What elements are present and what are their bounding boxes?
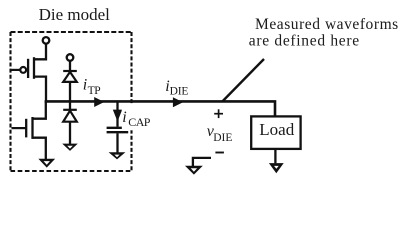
transistor Q2 NMOS: gate lead wire <box>12 127 27 129</box>
svg-text:Load: Load <box>259 120 294 139</box>
i_TP current arrowhead on node line <box>94 97 104 107</box>
svg-text:Die model: Die model <box>39 5 111 24</box>
diode D1: cathode bar <box>63 70 77 72</box>
transistor Q1 PMOS: gate bar <box>27 59 29 78</box>
ground under load <box>269 163 284 173</box>
node line (main wire) <box>45 101 275 117</box>
resistor/load box <box>251 116 300 148</box>
transistor Q2 NMOS: channel bar <box>31 117 33 139</box>
transistor Q1 PMOS: body <box>34 44 46 60</box>
capacitor C: wire to ground <box>116 133 118 153</box>
svg-text:TP: TP <box>88 85 101 97</box>
transistor Q1 PMOS: terminal circle <box>43 37 50 44</box>
transistor Q2 NMOS: gate bar <box>25 119 27 138</box>
diode D2: cathode bar <box>63 109 77 111</box>
diode D2 (lower ESD diode): wire from node <box>69 101 71 109</box>
transistor Q2 NMOS: source wire <box>33 138 46 160</box>
diode D2: wire to ground <box>69 122 71 145</box>
svg-text:i: i <box>122 109 126 126</box>
ground under capacitor <box>109 152 126 159</box>
v_DIE reference ground wire <box>193 158 211 166</box>
capacitor C (die cap): wire from node <box>116 101 118 111</box>
capacitor C: bottom plate <box>107 131 129 133</box>
i_DIE current arrowhead on node line <box>173 97 183 107</box>
svg-text:DIE: DIE <box>213 132 232 144</box>
svg-text:are defined here: are defined here <box>249 33 360 50</box>
die model dashed box <box>11 32 132 171</box>
minus sign (v_DIE polarity) <box>215 152 224 154</box>
transistor Q2 NMOS: drain wire <box>33 101 46 118</box>
ground under diode D2 <box>62 144 78 151</box>
diode D1: triangle <box>63 72 77 82</box>
svg-text:DIE: DIE <box>170 86 189 98</box>
ground for v_DIE reference <box>185 166 203 175</box>
plus sign (v_DIE polarity) <box>214 109 223 118</box>
diode D1: wire to node <box>69 82 71 102</box>
svg-text:i: i <box>83 77 87 94</box>
capacitor C: current arrow i_CAP <box>113 110 122 122</box>
load box bottom wire <box>274 149 276 163</box>
diode D1: wire from circle <box>69 61 71 71</box>
ground under NMOS <box>38 159 55 168</box>
pointer line (measured waveforms callout) <box>222 59 264 102</box>
diode D1 (upper ESD diode): terminal circle <box>67 54 74 61</box>
svg-text:Measured waveforms: Measured waveforms <box>255 16 399 33</box>
transistor Q1 PMOS: gate lead wire <box>12 69 21 71</box>
capacitor C: top plate <box>107 127 129 129</box>
white mask under i_CAP label (covers dashed edge) <box>122 104 153 131</box>
transistor Q1 PMOS: gate bubble <box>20 67 26 73</box>
diode D2: triangle <box>63 111 77 122</box>
svg-text:CAP: CAP <box>128 115 150 129</box>
